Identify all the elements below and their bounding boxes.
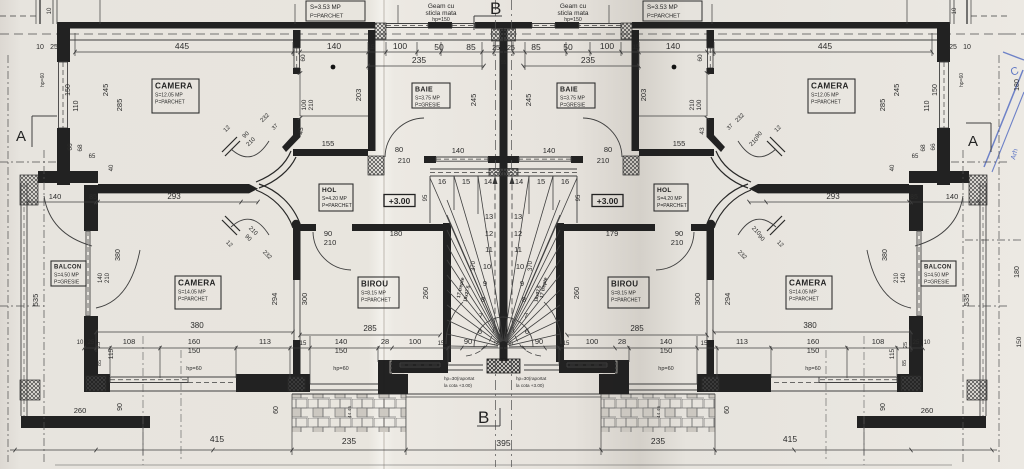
wall porch front (392, 360, 448, 373)
svg-text:A: A (16, 128, 26, 145)
dim text 18x27.5 (462, 285, 541, 303)
edge dim 150 (1016, 336, 1023, 347)
svg-text:210: 210 (597, 156, 610, 165)
dim text 140 (98, 272, 907, 283)
svg-text:85: 85 (466, 42, 476, 52)
wall porch centre pier (487, 359, 520, 373)
dim extension verticals bottom (96, 332, 448, 455)
svg-text:85: 85 (97, 360, 103, 366)
svg-text:S=8.15 MP: S=8.15 MP (361, 291, 387, 297)
svg-text:15: 15 (537, 177, 545, 186)
dim text 140 (335, 337, 673, 346)
room label CAMERA (175, 276, 221, 309)
svg-text:210: 210 (689, 99, 696, 110)
edge dim 180 top (1014, 79, 1021, 91)
dim line camera bottom (94, 330, 441, 337)
svg-text:BIROU: BIROU (361, 280, 388, 289)
svg-text:180: 180 (390, 229, 403, 238)
svg-text:235: 235 (342, 436, 356, 446)
svg-text:285: 285 (878, 99, 887, 112)
svg-text:CAMERA: CAMERA (178, 279, 216, 288)
svg-text:115: 115 (108, 348, 115, 359)
dim text 66 (67, 143, 937, 151)
room label BIROU (358, 277, 399, 308)
dim text 203 (354, 89, 648, 102)
svg-text:Geam cu: Geam cu (428, 3, 455, 10)
dim line row bottom (82, 346, 503, 350)
terrace hatch right (601, 394, 715, 432)
svg-text:16: 16 (438, 177, 446, 186)
svg-text:113: 113 (259, 337, 271, 346)
dim text 16 (438, 177, 569, 186)
dim text 245 (101, 84, 901, 97)
dim text 90 (324, 229, 683, 238)
dim text 60 (273, 406, 731, 414)
svg-text:Geam cu: Geam cu (560, 3, 587, 10)
dim text 90 (117, 403, 887, 411)
svg-text:245: 245 (101, 84, 110, 97)
svg-text:P=PARCHET: P=PARCHET (647, 14, 681, 20)
svg-text:140: 140 (666, 41, 680, 51)
svg-text:P=PARCHET: P=PARCHET (611, 298, 641, 304)
dim text 210 (246, 136, 761, 148)
elevation marker +3.00 left (384, 195, 415, 207)
stair fan (430, 176, 504, 347)
svg-text:68: 68 (920, 144, 927, 152)
wall chamfer upper (222, 137, 296, 188)
dim text 232 (260, 112, 747, 124)
dim text 7 (479, 311, 528, 320)
dim text 235 (342, 436, 665, 446)
door arc balcony west (96, 250, 140, 308)
room label CAMERA (808, 79, 855, 113)
door arc chamfer lower (231, 219, 269, 235)
svg-text:A: A (968, 133, 978, 150)
wall hatch balcony SW (20, 380, 40, 400)
svg-text:90: 90 (117, 403, 124, 411)
svg-text:la cota +3.00): la cota +3.00) (516, 383, 544, 388)
wall hatch pier centre (492, 29, 504, 41)
node axis line A (0, 33, 504, 35)
dim text 10 (36, 44, 971, 51)
room label BAIE (412, 83, 450, 109)
dim text 60 (300, 54, 704, 62)
section marker A left (16, 116, 57, 147)
svg-text:hp=60: hp=60 (333, 366, 348, 372)
wall hatch balcony NW (20, 175, 38, 205)
svg-text:hp=30(raportat: hp=30(raportat (444, 376, 475, 381)
svg-text:100: 100 (301, 99, 308, 110)
svg-text:P=PARCHET: P=PARCHET (361, 298, 391, 304)
svg-text:85: 85 (910, 194, 918, 201)
dim text 9 (483, 279, 524, 288)
wall chamfer lower (222, 184, 301, 235)
svg-text:50: 50 (434, 42, 444, 52)
svg-text:8: 8 (481, 295, 485, 304)
dim text 380 (190, 321, 817, 330)
svg-text:B: B (490, 0, 501, 18)
svg-text:25: 25 (903, 342, 909, 348)
svg-text:15: 15 (367, 44, 375, 51)
svg-text:P=PARCHET: P=PARCHET (811, 100, 841, 106)
wire inner face top wall (70, 39, 503, 41)
svg-text:15: 15 (563, 341, 570, 347)
svg-text:380: 380 (882, 249, 889, 261)
dim text hp=60 (186, 366, 820, 372)
svg-text:95: 95 (576, 194, 582, 201)
svg-text:7: 7 (479, 311, 483, 320)
svg-text:210: 210 (398, 156, 411, 165)
svg-text:S=3.75 MP: S=3.75 MP (415, 96, 441, 102)
svg-text:CAMERA: CAMERA (811, 82, 849, 91)
dim text 85 (89, 194, 918, 201)
dim text 65 (89, 154, 919, 160)
svg-text:85: 85 (89, 194, 97, 201)
svg-text:85: 85 (531, 42, 541, 52)
dim text 80 (395, 145, 612, 154)
wire porch bottom edge (406, 394, 601, 397)
wall camera-birou (293, 231, 301, 378)
node axis col 143 (143, 336, 181, 465)
svg-text:14: 14 (484, 177, 492, 186)
mirrored right half (503, 0, 1007, 467)
section marker B bottom (477, 408, 500, 427)
room label BIROU (608, 277, 649, 308)
svg-text:13: 13 (514, 212, 522, 221)
svg-text:85: 85 (902, 360, 908, 366)
wall hatch pier top (375, 23, 386, 39)
svg-text:BAIE: BAIE (415, 87, 433, 94)
svg-text:55: 55 (507, 341, 513, 347)
wall hatch pier hol (368, 156, 384, 175)
svg-text:BALCON: BALCON (924, 265, 951, 271)
svg-text:P=GRESIE: P=GRESIE (924, 280, 950, 286)
svg-text:203: 203 (639, 89, 648, 102)
svg-text:P=PARCHET: P=PARCHET (178, 297, 208, 303)
wall hol north 155 (293, 149, 368, 156)
svg-text:110: 110 (924, 100, 931, 111)
svg-text:S=3.53 MP: S=3.53 MP (310, 4, 341, 11)
dim text 37 (271, 123, 735, 132)
svg-text:S=12.05 MP: S=12.05 MP (155, 93, 183, 99)
dim text 140 (49, 192, 959, 201)
dim text 25 (88, 340, 920, 346)
svg-text:210: 210 (671, 238, 684, 247)
svg-text:S=8.15 MP: S=8.15 MP (611, 291, 637, 297)
svg-text:B: B (478, 408, 489, 427)
dim text 113 (259, 337, 748, 346)
svg-text:hp=150: hp=150 (432, 17, 450, 23)
dim text 100 (393, 41, 614, 51)
svg-text:hp=60: hp=60 (959, 73, 965, 87)
door arc balcony north (44, 196, 92, 246)
svg-text:370: 370 (471, 260, 477, 271)
svg-text:10: 10 (77, 340, 84, 346)
node axis horizontal left (0, 162, 57, 306)
svg-text:210: 210 (308, 99, 315, 110)
svg-text:28: 28 (381, 337, 389, 346)
svg-text:140: 140 (335, 337, 348, 346)
svg-text:P=PARCHET: P=PARCHET (310, 14, 344, 20)
svg-text:150: 150 (1016, 336, 1023, 347)
svg-text:140: 140 (543, 146, 556, 155)
room label CAMERA (786, 276, 832, 309)
svg-text:235: 235 (581, 55, 595, 65)
svg-text:380: 380 (115, 249, 122, 261)
dim text 150 (65, 84, 939, 96)
svg-text:415: 415 (783, 434, 797, 444)
wall west upper (57, 22, 70, 185)
node axis line A right tail (1007, 33, 1024, 35)
wire guide top corner (0, 0, 398, 24)
svg-text:BALCON: BALCON (54, 265, 81, 271)
svg-text:11: 11 (514, 245, 522, 254)
wall porch step block (378, 360, 408, 394)
svg-text:P=PARCHET: P=PARCHET (155, 100, 185, 106)
wall closet-baie (368, 30, 376, 151)
svg-text:44.45: 44.45 (347, 406, 353, 418)
dim text 10 (77, 340, 931, 346)
dim text 140 (452, 146, 556, 155)
svg-text:25: 25 (913, 340, 920, 346)
dim text 210 (308, 99, 696, 110)
wire balcony west wall (21, 183, 27, 416)
svg-text:260: 260 (74, 406, 87, 415)
dim text 300 (300, 293, 702, 306)
dim text 150 (188, 346, 820, 355)
dim text 85 (466, 42, 541, 52)
svg-text:7: 7 (524, 311, 528, 320)
wall bottom camera segment (84, 374, 310, 392)
svg-text:300: 300 (300, 293, 309, 306)
svg-text:15: 15 (701, 341, 708, 347)
wall baie south (424, 156, 504, 163)
dim text 445 (175, 41, 832, 51)
dim text 260 (74, 406, 934, 415)
svg-text:245: 245 (892, 84, 901, 97)
dim text 15 (438, 341, 570, 347)
svg-text:80: 80 (604, 145, 612, 154)
door arc chamfer upper (231, 141, 269, 157)
svg-text:60: 60 (273, 406, 280, 414)
svg-text:S=12.05 MP: S=12.05 MP (811, 93, 839, 99)
dim text 395 (496, 438, 510, 448)
svg-text:370: 370 (528, 260, 534, 271)
dim text 25 (492, 45, 515, 52)
svg-text:hp=150: hp=150 (564, 17, 582, 23)
svg-text:hp=60: hp=60 (186, 366, 201, 372)
svg-text:hp=60: hp=60 (40, 73, 46, 87)
svg-text:245: 245 (469, 94, 478, 107)
svg-text:+3.00: +3.00 (389, 196, 411, 206)
wall funnel 293 (98, 184, 258, 193)
stair walk line (466, 0, 498, 467)
dim line balcony funnel (26, 200, 259, 204)
wall balcony south (21, 416, 150, 428)
dim text 17 trepte (456, 277, 549, 299)
dim text 12 (485, 229, 522, 238)
svg-text:S=3.75 MP: S=3.75 MP (560, 96, 586, 102)
dim text 100 (301, 99, 703, 110)
svg-text:13: 13 (485, 212, 493, 221)
svg-text:P=GRESIE: P=GRESIE (54, 280, 80, 286)
svg-text:sticla mata: sticla mata (425, 10, 456, 17)
svg-text:140: 140 (98, 272, 104, 283)
room label left BALCON (51, 261, 86, 286)
svg-text:235: 235 (412, 55, 426, 65)
svg-text:BAIE: BAIE (560, 87, 578, 94)
svg-text:25: 25 (50, 44, 58, 51)
svg-text:66: 66 (67, 143, 74, 151)
slope right (656, 406, 662, 418)
svg-text:CAMERA: CAMERA (789, 279, 827, 288)
svg-text:25: 25 (949, 44, 957, 51)
svg-text:S=4.20 MP: S=4.20 MP (322, 196, 348, 202)
svg-text:sticla mata: sticla mata (557, 10, 588, 17)
dim text 232 (261, 250, 748, 262)
svg-text:300: 300 (693, 293, 702, 306)
svg-text:100: 100 (696, 99, 703, 110)
svg-text:6: 6 (525, 327, 529, 336)
svg-text:415: 415 (210, 434, 224, 444)
wall west lower (84, 316, 98, 376)
dim extension verticals top (75, 33, 494, 70)
section marker B top (474, 0, 502, 30)
svg-text:100: 100 (586, 337, 599, 346)
wire porch west edge (310, 384, 378, 390)
svg-text:hp=60: hp=60 (805, 366, 820, 372)
svg-text:S=4.50 MP: S=4.50 MP (54, 273, 80, 279)
dim text 15 (367, 44, 640, 51)
svg-text:140: 140 (901, 272, 907, 283)
svg-text:15: 15 (462, 177, 470, 186)
svg-text:260: 260 (421, 287, 430, 300)
dim text 245 (469, 94, 533, 107)
dim text 180 (390, 229, 403, 238)
svg-text:113: 113 (736, 337, 748, 346)
wire porch door gap (448, 365, 483, 370)
svg-text:160: 160 (807, 337, 820, 346)
door arc birou (313, 232, 351, 270)
dim text 50 (434, 42, 573, 52)
svg-text:180: 180 (1014, 266, 1021, 278)
svg-text:179: 179 (606, 229, 619, 238)
svg-text:66: 66 (930, 143, 937, 151)
dim text 10 (47, 7, 958, 14)
svg-text:155: 155 (322, 139, 335, 148)
svg-text:12: 12 (514, 229, 522, 238)
svg-text:245: 245 (524, 94, 533, 107)
svg-text:hp=60: hp=60 (658, 366, 673, 372)
dim text 25 (96, 342, 909, 348)
svg-text:55: 55 (494, 341, 500, 347)
svg-text:44.45: 44.45 (656, 406, 662, 418)
dim text 150 (335, 346, 673, 355)
svg-text:108: 108 (123, 337, 136, 346)
note hp30 right b (516, 383, 544, 388)
svg-text:535: 535 (962, 294, 971, 307)
svg-text:9: 9 (483, 279, 487, 288)
dim text 68 (77, 144, 927, 152)
svg-text:14: 14 (515, 177, 523, 186)
window balcony door 140-210 (86, 231, 90, 316)
svg-text:260: 260 (572, 287, 581, 300)
dim text 55 (494, 341, 513, 347)
note hp30 left b (444, 383, 472, 388)
dim text 160 (188, 337, 820, 346)
svg-text:68: 68 (77, 144, 84, 152)
svg-text:150: 150 (932, 84, 939, 96)
wall balcony north (38, 171, 98, 183)
dim text 25 (50, 44, 957, 51)
svg-text:25: 25 (492, 45, 500, 52)
dim text 210 (105, 272, 900, 283)
svg-text:60: 60 (300, 54, 307, 62)
dim text 210 (398, 156, 610, 165)
svg-text:535: 535 (31, 294, 40, 307)
svg-text:110: 110 (73, 100, 80, 111)
dim text 12 (224, 240, 784, 249)
svg-text:294: 294 (723, 293, 732, 306)
wall birou north (293, 224, 444, 231)
svg-text:25: 25 (88, 340, 95, 346)
dim text 13 (485, 212, 522, 221)
note hp30 left a (444, 376, 475, 381)
dim text 10 (483, 262, 524, 271)
svg-text:8: 8 (522, 295, 526, 304)
dim text 28 (381, 337, 626, 346)
stamp blue lines (984, 52, 1024, 172)
svg-text:HOL: HOL (657, 187, 672, 194)
dim text 11 (485, 245, 522, 254)
dim text 293 (167, 192, 840, 201)
svg-text:15: 15 (300, 341, 307, 347)
svg-text:203: 203 (354, 89, 363, 102)
svg-text:115: 115 (889, 348, 896, 359)
dim text 210 (324, 238, 684, 247)
svg-text:12: 12 (485, 229, 493, 238)
dim text 415 (210, 434, 797, 444)
svg-text:9: 9 (520, 279, 524, 288)
svg-text:16: 16 (561, 177, 569, 186)
svg-text:140: 140 (452, 146, 465, 155)
svg-text:P=GRESIE: P=GRESIE (415, 103, 441, 109)
dim text 110 (73, 100, 931, 111)
dim text 14 (484, 177, 523, 186)
wall central spine (500, 29, 508, 361)
wall interior camera-baie upper (282, 30, 368, 152)
svg-text:P=GRESIE: P=GRESIE (560, 103, 586, 109)
svg-text:100: 100 (393, 41, 407, 51)
svg-text:P=PARCHET: P=PARCHET (789, 297, 819, 303)
svg-text:10: 10 (36, 44, 44, 51)
svg-text:140: 140 (660, 337, 673, 346)
dim text 370 (471, 260, 534, 271)
svg-text:15: 15 (438, 341, 445, 347)
dim text 210 (247, 226, 762, 238)
svg-text:40: 40 (109, 164, 115, 171)
note geam left (425, 3, 456, 23)
svg-text:HOL: HOL (322, 187, 337, 194)
fold crease light (383, 0, 385, 469)
svg-text:150: 150 (188, 346, 201, 355)
svg-text:380: 380 (803, 321, 817, 330)
dim text 43 (298, 127, 706, 135)
dim text 535 (31, 294, 971, 307)
dim text 140 (327, 41, 680, 51)
svg-text:150: 150 (65, 84, 72, 96)
svg-text:285: 285 (630, 324, 644, 333)
